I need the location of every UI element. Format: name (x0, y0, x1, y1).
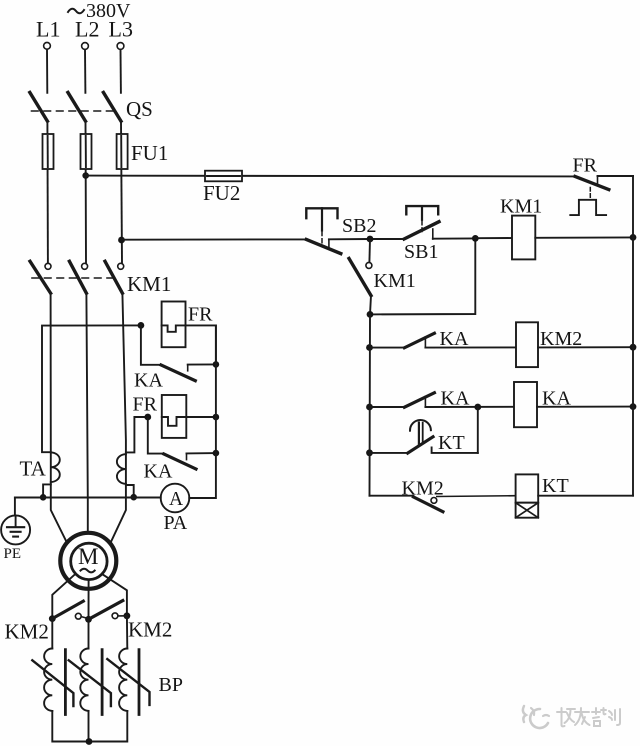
svg-text:KM2: KM2 (128, 618, 172, 642)
svg-text:KA: KA (134, 370, 163, 392)
wire right bus (632, 176, 634, 496)
svg-text:PE: PE (4, 546, 22, 562)
svg-text:L1: L1 (36, 17, 60, 42)
svg-text:KM2: KM2 (540, 328, 582, 350)
node L3 (109, 17, 133, 93)
svg-text:KA: KA (542, 388, 571, 410)
fuse FU1 (43, 121, 169, 263)
svg-text:BP: BP (159, 674, 183, 696)
wire control top (118, 237, 306, 244)
svg-text:L3: L3 (109, 17, 133, 42)
current transformer TA (phase 1) (20, 325, 141, 500)
thermal heater FR element 2 (133, 394, 220, 438)
button SB1 (370, 206, 475, 263)
time relay contact KT (366, 407, 478, 456)
contactor contact KM2 NC (370, 478, 516, 512)
contactor KM2 rotor contacts (5, 574, 173, 643)
svg-text:KT: KT (542, 475, 569, 497)
rheostat BP (32, 616, 183, 745)
ammeter PA (161, 325, 216, 534)
svg-text:KA: KA (441, 388, 470, 410)
switch QS (30, 92, 153, 121)
svg-text:FR: FR (188, 304, 213, 326)
contactor KM1 main contacts (30, 261, 171, 296)
contactor KM1 aux contact (349, 236, 475, 318)
svg-text:FU1: FU1 (131, 141, 168, 165)
svg-text:KM1: KM1 (127, 272, 171, 296)
svg-text:FR: FR (573, 155, 598, 177)
svg-text:FU2: FU2 (203, 181, 240, 205)
fuse FU2 (82, 171, 575, 205)
svg-text:SB1: SB1 (404, 241, 438, 263)
svg-text:KA: KA (440, 328, 469, 350)
svg-text:KM1: KM1 (500, 196, 542, 218)
current transformer TA (phase 3) (117, 417, 148, 501)
relay contact KA rung2 (366, 388, 514, 411)
coil KM1 (472, 196, 636, 260)
node L1 (36, 17, 60, 93)
button SB2 (306, 208, 376, 253)
relay contact KA bypass 1 (134, 325, 219, 391)
ground PE (1, 498, 161, 563)
svg-text:KT: KT (438, 432, 465, 454)
coil KA (514, 382, 636, 427)
wire phase lines lower (51, 293, 126, 542)
svg-text:QS: QS (126, 97, 153, 121)
svg-text:KA: KA (144, 461, 173, 483)
svg-text:KM2: KM2 (5, 620, 49, 644)
coil KT (516, 474, 633, 517)
wire left control bus (369, 314, 372, 495)
coil KM2 (516, 322, 636, 367)
svg-text:TA: TA (20, 457, 47, 481)
svg-text:SB2: SB2 (342, 215, 376, 237)
thermal relay contact FR (570, 155, 633, 216)
svg-text:A: A (169, 489, 183, 510)
node ~380V label (68, 0, 131, 22)
svg-text:KM1: KM1 (374, 270, 416, 292)
svg-text:KM2: KM2 (402, 478, 444, 500)
motor M (60, 533, 116, 589)
relay contact KA rung1 (366, 328, 516, 351)
svg-text:L2: L2 (75, 17, 99, 42)
svg-text:PA: PA (164, 512, 188, 534)
node L2 (75, 17, 99, 93)
thermal heater FR element 1 (138, 302, 216, 365)
relay contact KA bypass 2 (144, 417, 220, 483)
svg-text:FR: FR (133, 394, 158, 416)
watermark logo (523, 706, 620, 728)
svg-text:M: M (78, 544, 98, 569)
